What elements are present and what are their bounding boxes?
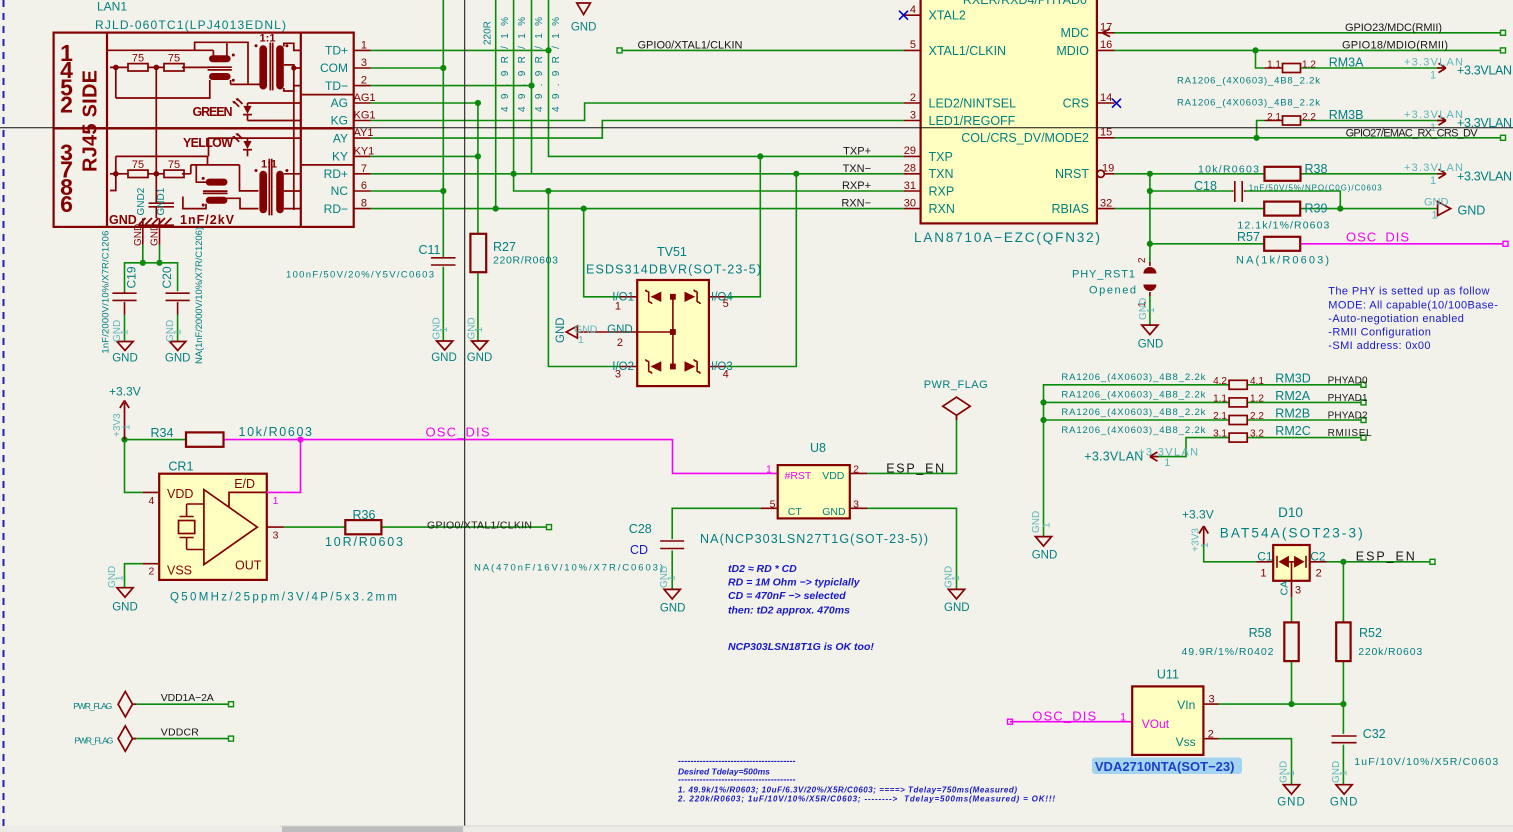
resistor RM3D body: [1229, 380, 1247, 389]
svg-text:RM3B: RM3B: [1329, 108, 1364, 122]
svg-text:+3.3VLAN: +3.3VLAN: [1404, 162, 1463, 174]
LAN1 divider redrawn over crosshair: [54, 127, 354, 129]
wire C32 leg below rail: [1342, 704, 1344, 734]
svg-text:GND1: GND1: [156, 187, 167, 215]
power +3.3VLAN arrow at R38: [1437, 169, 1446, 178]
svg-text:XTAL1/CLKIN: XTAL1/CLKIN: [929, 44, 1007, 58]
svg-text:75: 75: [168, 52, 180, 64]
wire GPIO0/XTAL1/CLKIN label to PHY pin 5: [622, 49, 904, 51]
choke L2 bottom winding: [206, 197, 228, 204]
svg-text:PHYAD2: PHYAD2: [1328, 411, 1368, 422]
transformer T2 polarity dots: [255, 169, 258, 172]
wire RJ45 GND1 pin to cap join: [159, 245, 161, 263]
wire C28 bottom to GND: [671, 551, 673, 590]
choke L2 top winding: [206, 179, 228, 186]
wire MDC row PHY pin17 to global label: [1115, 32, 1502, 34]
svg-text:-RMII Configuration: -RMII Configuration: [1328, 327, 1431, 339]
svg-text:+3.3VLAN: +3.3VLAN: [1457, 64, 1512, 78]
svg-text:NA(470nF/16V/10%/X7R/C0603): NA(470nF/16V/10%/X7R/C0603): [474, 563, 663, 574]
svg-text:2: 2: [853, 464, 859, 476]
junction R52 / VIn rail / C32: [1340, 701, 1346, 707]
svg-text:LAN8710A−EZC(QFN32): LAN8710A−EZC(QFN32): [914, 230, 1100, 245]
svg-text:220R: 220R: [483, 21, 494, 45]
resistor R52 body: [1336, 622, 1350, 661]
ground symbol under C28: [664, 589, 680, 599]
PWR_FLAG diamond VDD1A-2A: [118, 692, 136, 717]
svg-text:1: 1: [615, 301, 621, 313]
svg-text:3: 3: [853, 499, 859, 511]
wire C11 bottom lead to GND: [442, 267, 444, 341]
svg-text:tD2 ≈ RD * CD: tD2 ≈ RD * CD: [728, 563, 797, 575]
junction OSC_DIS / E-D branch (magenta): [297, 437, 303, 443]
TV51 diode lower-right: [685, 361, 696, 371]
junction COL row / RM3B riser: [1254, 135, 1260, 141]
svg-text:GND: GND: [944, 602, 970, 614]
svg-text:GND: GND: [1032, 550, 1058, 562]
ground symbol right of R39: [1438, 202, 1451, 216]
svg-text:1: 1: [173, 329, 184, 335]
wire AY1 row to LED1 riser: [371, 121, 904, 139]
svg-text:7: 7: [361, 163, 367, 175]
dangling square GPIO0/XTAL1 lower label: [547, 525, 552, 530]
svg-text:C19: C19: [125, 266, 139, 288]
TV51 pin stubs: [620, 297, 726, 367]
svg-text:1: 1: [1286, 770, 1297, 776]
wire NC row to C11 column: [371, 190, 444, 192]
wire RM2C output to RMIISEL label square: [1247, 437, 1361, 439]
svg-text:+3.3VLAN: +3.3VLAN: [1457, 169, 1512, 183]
svg-text:2: 2: [1316, 567, 1322, 579]
svg-text:VDD: VDD: [167, 487, 193, 501]
CR1 E/D pin stub highlighted: [267, 491, 284, 493]
connector LAN1 RJLD-060TC1 outer box: [54, 33, 354, 227]
svg-text:1: 1: [474, 327, 485, 333]
junction NRST / R38 rail: [1147, 171, 1153, 177]
svg-text:GND: GND: [467, 352, 493, 364]
junction lower termination left: [113, 171, 119, 177]
wire C11 / cap rail column from top to C11: [442, 0, 444, 257]
svg-text:OSC_DIS: OSC_DIS: [1346, 230, 1409, 245]
svg-text:1: 1: [1339, 770, 1350, 776]
dangling square RMIISEL: [1361, 435, 1366, 440]
choke L1 polarity dots: [232, 54, 235, 57]
ground symbol under C11: [437, 341, 453, 350]
svg-text:2.2: 2.2: [1302, 112, 1316, 123]
svg-text:C1: C1: [1257, 549, 1273, 563]
svg-text:4: 4: [910, 4, 916, 16]
svg-text:1: 1: [439, 327, 450, 333]
junction upper termination left: [113, 65, 119, 71]
cursor crosshair vertical: [464, 0, 466, 826]
svg-text:CA: CA: [1279, 581, 1291, 596]
ground symbol under PHY_RST1: [1142, 325, 1158, 335]
wire TXN tap down to TV51 I/O3: [726, 174, 796, 367]
svg-text:OSC_DIS: OSC_DIS: [1032, 709, 1096, 724]
svg-text:VIn: VIn: [1177, 698, 1195, 712]
svg-text:U8: U8: [810, 441, 826, 455]
svg-text:GND: GND: [1330, 797, 1359, 809]
shield hatch area: [138, 218, 174, 225]
svg-text:RXN−: RXN−: [841, 198, 871, 210]
junction RD+ / RXP column: [510, 171, 516, 177]
wire R27 bottom lead to GND: [477, 272, 479, 341]
resistor 75 ohm lower-right: [164, 170, 184, 177]
wire U11 VIn row: [1219, 703, 1344, 705]
bottom blue notes: [677, 756, 1055, 804]
svg-text:RXP+: RXP+: [842, 180, 871, 192]
D10 internal link: [1289, 562, 1294, 581]
capacitor C32 plates: [1332, 736, 1357, 743]
svg-text:GPIO23/MDC(RMII): GPIO23/MDC(RMII): [1345, 22, 1442, 34]
svg-text:GND: GND: [165, 352, 191, 364]
wire CR1 OUT to R36: [284, 526, 346, 528]
svg-text:3: 3: [1295, 585, 1301, 597]
junction R58 / VIn rail: [1288, 701, 1294, 707]
svg-text:#RST: #RST: [785, 470, 812, 482]
svg-text:1: 1: [1200, 542, 1211, 548]
wire U8 GND pin3 to GND arrow: [867, 508, 956, 589]
junction RXN row / TV51 I-O1 tap: [581, 206, 587, 212]
wire R57 row tap: [1150, 243, 1264, 245]
dangling square GPIO27 end: [1501, 135, 1506, 140]
svg-text:29: 29: [904, 145, 916, 157]
transformer T2 right winding: [276, 171, 284, 214]
cursor crosshair horizontal: [0, 127, 1513, 129]
wire RM3B body lead: [1265, 120, 1283, 122]
wire AG1 row to R27 column: [371, 102, 478, 104]
dangling square GPIO0 label start: [617, 48, 622, 53]
wire TD+ row from RJ45 pin1 to terminator column: [371, 49, 549, 51]
svg-text:PHYAD1: PHYAD1: [1328, 393, 1368, 404]
wire U8 VDD to ESP_EN / PWR_FLAG: [867, 415, 956, 473]
svg-text:GND: GND: [133, 224, 144, 246]
LAN1 inner divider left column: [106, 33, 108, 227]
dangling square PHYAD2: [1361, 418, 1366, 423]
svg-text:VDA2710NTA(SOT−23): VDA2710NTA(SOT−23): [1095, 759, 1235, 774]
resistor RM3B body: [1283, 116, 1301, 125]
TV51 GND pin line: [577, 331, 637, 333]
svg-text:75: 75: [132, 159, 144, 171]
svg-text:GND: GND: [150, 224, 161, 246]
svg-text:-Auto-negotiation enabled: -Auto-negotiation enabled: [1328, 313, 1464, 325]
wire R39 right to GND arrow: [1300, 208, 1437, 210]
svg-text:RBIAS: RBIAS: [1051, 202, 1089, 216]
svg-text:220k/R0603: 220k/R0603: [1358, 646, 1422, 658]
svg-text:C2: C2: [1310, 549, 1326, 563]
wire RM3A riser from MDIO row: [1256, 50, 1265, 68]
svg-text:28: 28: [904, 163, 916, 175]
shield capacitor plates: [149, 203, 175, 207]
svg-text:TXP+: TXP+: [843, 145, 871, 157]
junction ESP_EN / R52 tap: [1340, 559, 1346, 565]
svg-text:RXP: RXP: [929, 185, 955, 199]
svg-text:R39: R39: [1305, 201, 1328, 215]
power +3.3VLAN arrow at RM3B: [1437, 116, 1446, 125]
wire R36 right to GPIO0 label square: [381, 526, 546, 528]
power +3.3VLAN arrow at RM3A: [1437, 63, 1446, 72]
wire RM3A body leads: [1265, 67, 1301, 69]
wire R58 bottom to VIn rail: [1291, 661, 1293, 704]
svg-text:BAT54A(SOT23-3): BAT54A(SOT23-3): [1220, 526, 1363, 541]
svg-text:1: 1: [667, 575, 678, 581]
scrollbar track: [0, 826, 1513, 832]
regulator U8 body: [778, 465, 850, 518]
wire D10 pin3 down to R58: [1291, 597, 1293, 622]
svg-text:3: 3: [1209, 694, 1215, 706]
D10 right diode: [1294, 556, 1304, 568]
wire C19 bottom to GND: [124, 315, 126, 342]
svg-text:R34: R34: [151, 426, 174, 440]
jumper PHY_RST1 pads: [1143, 267, 1156, 274]
svg-text:2: 2: [60, 92, 73, 118]
svg-text:1: 1: [1430, 70, 1436, 82]
choke L1 top winding: [209, 55, 231, 62]
svg-text:3: 3: [615, 369, 621, 381]
diode D10 body: [1273, 545, 1310, 581]
svg-text:5: 5: [910, 39, 916, 51]
svg-text:R52: R52: [1359, 626, 1382, 640]
wire COL/CRS_DV row PHY pin15 to GPIO27 global label: [1115, 137, 1502, 139]
transformer T1 center tap to COM and internal rail: [284, 65, 301, 210]
LAN8710A left pin stubs: [904, 15, 921, 208]
svg-text:10k/R0603: 10k/R0603: [1198, 163, 1259, 175]
svg-text:GND: GND: [112, 601, 138, 613]
svg-text:4: 4: [723, 369, 729, 381]
wire R52 bottom to VIn rail: [1342, 661, 1344, 704]
svg-text:3: 3: [273, 530, 279, 542]
svg-text:TD+: TD+: [325, 44, 348, 58]
svg-text:6: 6: [361, 180, 367, 192]
wire RXN tap down to TV51 I/O1: [584, 209, 620, 297]
transformer T1 right winding: [276, 45, 284, 89]
junction AG1 / R27 column: [475, 100, 481, 106]
dangling square VDDCR: [229, 736, 234, 741]
svg-text:GND: GND: [1277, 797, 1306, 809]
svg-text:2.1: 2.1: [1267, 112, 1281, 123]
jumper PHY_RST1 pin stubs: [1149, 262, 1151, 296]
svg-text:AY1: AY1: [354, 127, 374, 139]
wire C32 bottom to GND: [1342, 745, 1344, 785]
green LED anode/cathode rails: [248, 103, 301, 121]
svg-text:PWR_FLAG: PWR_FLAG: [74, 736, 113, 746]
TV51 ground symbol pointing left: [566, 326, 577, 338]
choke L2 tails: [183, 165, 259, 209]
center tap vertical rail to shield cap: [155, 67, 157, 203]
capacitor C18 plates: [1235, 181, 1242, 202]
svg-text:1: 1: [951, 575, 962, 581]
wire RM pulldown rail left column: [1044, 385, 1230, 537]
resistor R57 body: [1264, 237, 1300, 251]
svg-text:1:1: 1:1: [261, 158, 277, 170]
svg-text:15: 15: [1100, 127, 1112, 139]
svg-text:1: 1: [1432, 210, 1438, 222]
wire RM2B output to PHYAD2 label square: [1247, 419, 1361, 421]
wire RM2A row to rail: [1044, 401, 1230, 403]
svg-text:U11: U11: [1157, 668, 1179, 682]
svg-text:1: 1: [1042, 522, 1053, 528]
wire NRST pin19 to R38 rail: [1115, 173, 1265, 175]
svg-text:100nF/50V/20%/Y5V/C0603: 100nF/50V/20%/Y5V/C0603: [286, 270, 434, 281]
CR1 crystal body rect: [179, 521, 195, 534]
choke L1 tails: [116, 67, 231, 98]
svg-text:R36: R36: [353, 508, 376, 522]
svg-text:1: 1: [1120, 712, 1126, 724]
svg-text:NRST: NRST: [1055, 167, 1089, 181]
ESD array TV51 body: [637, 280, 709, 386]
wire TD- row from RJ45 pin2 to terminator column: [371, 85, 532, 87]
blue formula notes: [728, 563, 874, 653]
transformer T1 primary top rail: [107, 42, 260, 84]
svg-text:1.1: 1.1: [1267, 60, 1281, 71]
CR1 internal crystal symbol: [180, 504, 204, 550]
PWR_FLAG diamond VDDCR: [118, 726, 136, 751]
svg-text:The PHY is setted up as follow: The PHY is setted up as follow: [1328, 286, 1490, 298]
yellow LED stubs: [247, 138, 249, 156]
svg-text:AG: AG: [331, 96, 348, 110]
TV51 diode lower-left: [651, 361, 662, 371]
svg-text:TXN−: TXN−: [843, 163, 871, 175]
svg-text:VDD: VDD: [822, 470, 845, 482]
resistor 75 ohm upper-right: [164, 64, 184, 71]
svg-text:AY: AY: [333, 131, 348, 145]
svg-text:VDDCR: VDDCR: [161, 726, 199, 738]
ground symbol under RM pulldown rail: [1035, 537, 1051, 547]
svg-text:19: 19: [1102, 163, 1114, 175]
svg-text:RA1206_(4X0603)_4B8_2.2k: RA1206_(4X0603)_4B8_2.2k: [1061, 390, 1205, 401]
svg-text:3: 3: [361, 57, 367, 69]
svg-text:GPIO0/XTAL1/CLKIN: GPIO0/XTAL1/CLKIN: [638, 40, 743, 52]
svg-text:10R/R0603: 10R/R0603: [325, 535, 403, 549]
junction TXN row / TV51 I-O3 tap: [793, 171, 799, 177]
svg-text:+3.3VLAN: +3.3VLAN: [1404, 109, 1463, 121]
svg-text:GND: GND: [1138, 339, 1164, 351]
svg-text:XTAL2: XTAL2: [929, 9, 966, 23]
wire CR1 VSS to GND: [125, 564, 143, 588]
junction RM2A row / pulldown rail: [1040, 399, 1046, 405]
ground symbol under C19: [117, 342, 133, 351]
svg-text:NA(NCP303LSN27T1G(SOT-23-5)): NA(NCP303LSN27T1G(SOT-23-5)): [700, 532, 928, 546]
svg-text:E/D: E/D: [234, 477, 255, 491]
blue note PHY setup: [1328, 286, 1498, 352]
wire RJ45 GND2 pin to cap join: [142, 245, 144, 263]
lower termination rail wires: [110, 173, 191, 175]
junction RJ45 GND2 pin / cap rail: [140, 260, 146, 266]
svg-text:1.1: 1.1: [1213, 393, 1227, 404]
GND pin stubs below LAN1: [143, 227, 160, 245]
resistor RM3A body: [1283, 64, 1301, 73]
junction C18 / R39 GND rail: [1337, 206, 1343, 212]
wire segment between upper 75 ohm resistors: [110, 66, 164, 68]
svg-text:R27: R27: [493, 240, 516, 254]
resistor R39 body: [1264, 202, 1300, 216]
svg-text:GND: GND: [1031, 511, 1042, 533]
wire RBIAS row PHY pin32 to R39: [1115, 208, 1265, 210]
svg-text:5: 5: [723, 298, 729, 310]
svg-text:C20: C20: [160, 266, 174, 288]
svg-text:AG1: AG1: [354, 92, 376, 104]
svg-text:2: 2: [361, 75, 367, 87]
wire OSC_DIS magenta net from R34 to U8 #RST: [224, 440, 778, 474]
svg-text:C18: C18: [1194, 179, 1217, 193]
svg-text:CD = 470nF −> selected: CD = 470nF −> selected: [728, 590, 846, 602]
wire U11 Vss to GND: [1219, 739, 1292, 785]
D10 left diode: [1279, 556, 1289, 568]
junction TXP row / TV51 I-O4 tap: [757, 153, 763, 159]
svg-text:KG1: KG1: [354, 110, 376, 122]
TV51 internal center rail: [637, 297, 673, 367]
ground symbol under C32: [1336, 785, 1352, 795]
ground symbol under R27: [472, 341, 488, 350]
svg-text:C11: C11: [419, 243, 441, 257]
transformer T1 polarity dots: [255, 44, 258, 47]
LAN1 right strip divider upper: [301, 94, 354, 96]
wire MDIO row PHY pin16 to global label: [1115, 49, 1502, 51]
wire PHY_RST1 bottom to GND: [1149, 296, 1151, 325]
junction NC / C11 column: [440, 188, 446, 194]
svg-text:1: 1: [119, 329, 130, 335]
choke L1 bottom winding: [209, 73, 231, 80]
svg-text:R58: R58: [1249, 626, 1272, 640]
svg-text:ESDS314DBVR(SOT-23-5): ESDS314DBVR(SOT-23-5): [586, 263, 761, 277]
svg-text:GND: GND: [1458, 204, 1486, 218]
ground symbol top middle (sheet edge): [577, 3, 591, 15]
transformer T2 left winding: [259, 171, 267, 214]
svg-text:------------------------------: --------------------------------------: [678, 756, 796, 766]
LAN8710A right pin stubs: [1097, 33, 1115, 209]
power symbol +3.3V at D10: [1199, 526, 1208, 545]
svg-text:1: 1: [115, 575, 126, 581]
svg-text:2: 2: [1208, 729, 1214, 741]
svg-text:GND: GND: [822, 506, 846, 518]
U11 value highlighted: [1092, 758, 1242, 775]
wire COM row from RJ45 pin3 to cap rail: [371, 67, 444, 69]
resistor RM2B body: [1229, 416, 1247, 425]
LAN1 inner divider right pin strip: [300, 33, 302, 227]
svg-text:14: 14: [1100, 92, 1112, 104]
ground symbol under U8 pin3: [948, 589, 964, 599]
wire D10 C2 to ESP_EN label square: [1327, 561, 1431, 563]
transformer T1 secondary to TD+: [284, 43, 301, 50]
transformer T2 secondary taps to RD+ NC RD-: [284, 174, 301, 209]
capacitor C11 plates: [431, 258, 456, 265]
svg-text:LAN1: LAN1: [97, 0, 127, 14]
svg-text:1.2: 1.2: [1302, 60, 1316, 71]
wire OSC_DIS from R57 to right edge square: [1300, 243, 1503, 245]
svg-text:3: 3: [910, 109, 916, 121]
wire terminator column 548.5 from top, corner to TXP feed: [549, 0, 904, 156]
svg-text:1: 1: [361, 39, 367, 51]
dangling square OSC_DIS right: [1503, 241, 1508, 246]
ground symbol under U11 Vss: [1283, 785, 1299, 795]
junction +3.3V / R34: [121, 437, 127, 443]
svg-text:220R/R0603: 220R/R0603: [493, 255, 558, 267]
yellow LED emission arrows: [235, 135, 243, 142]
svg-text:1: 1: [578, 334, 584, 346]
svg-text:RMIISEL: RMIISEL: [1328, 428, 1372, 439]
svg-text:NA(1nF/2000V/10%/X7R/C1206): NA(1nF/2000V/10%/X7R/C1206): [194, 227, 205, 364]
PWR_FLAG symbol at ESP_EN: [943, 397, 970, 420]
svg-text:COM: COM: [320, 61, 348, 75]
wire KY1 row to R27 column: [371, 155, 478, 157]
CR1 pin stubs: [143, 492, 284, 563]
svg-text:3.1: 3.1: [1213, 429, 1227, 440]
resistor 75 ohm lower-left: [128, 170, 148, 177]
svg-text:LED2/NINTSEL: LED2/NINTSEL: [929, 96, 1017, 110]
dangling square GPIO18 end: [1501, 48, 1506, 53]
wire RM2C row to +3.3VLAN riser: [1159, 438, 1229, 457]
svg-text:RA1206_(4X0603)_4B8_2.2k: RA1206_(4X0603)_4B8_2.2k: [1061, 372, 1205, 383]
svg-text:NC: NC: [331, 184, 349, 198]
